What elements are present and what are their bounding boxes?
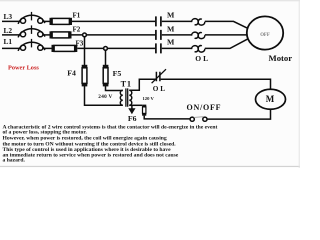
svg-text:M: M <box>167 38 175 47</box>
svg-text:T1: T1 <box>121 79 132 88</box>
svg-text:240 V: 240 V <box>98 94 112 100</box>
svg-text:OL: OL <box>153 85 167 93</box>
svg-text:F6: F6 <box>128 114 137 123</box>
svg-text:F3: F3 <box>76 39 84 47</box>
svg-text:120 V: 120 V <box>143 96 155 101</box>
svg-text:Motor: Motor <box>269 53 293 63</box>
svg-text:L2: L2 <box>4 26 13 35</box>
svg-text:M: M <box>167 11 175 20</box>
svg-text:OL: OL <box>195 54 210 63</box>
svg-text:F4: F4 <box>67 68 76 77</box>
svg-text:M: M <box>167 25 175 34</box>
svg-text:a hazard.: a hazard. <box>3 158 26 164</box>
svg-text:of a power loss, stopping the: of a power loss, stopping the motor. <box>3 129 88 135</box>
svg-text:M: M <box>266 94 275 104</box>
svg-text:F2: F2 <box>73 25 81 33</box>
svg-text:L3: L3 <box>4 12 13 21</box>
svg-text:Power Loss: Power Loss <box>8 64 39 71</box>
svg-text:OFF: OFF <box>260 33 270 38</box>
svg-text:F1: F1 <box>73 11 81 19</box>
svg-text:F5: F5 <box>113 69 122 78</box>
svg-text:ON/OFF: ON/OFF <box>187 103 222 112</box>
svg-text:L1: L1 <box>4 37 13 46</box>
svg-text:an immediate return to service: an immediate return to service when powe… <box>3 152 179 158</box>
